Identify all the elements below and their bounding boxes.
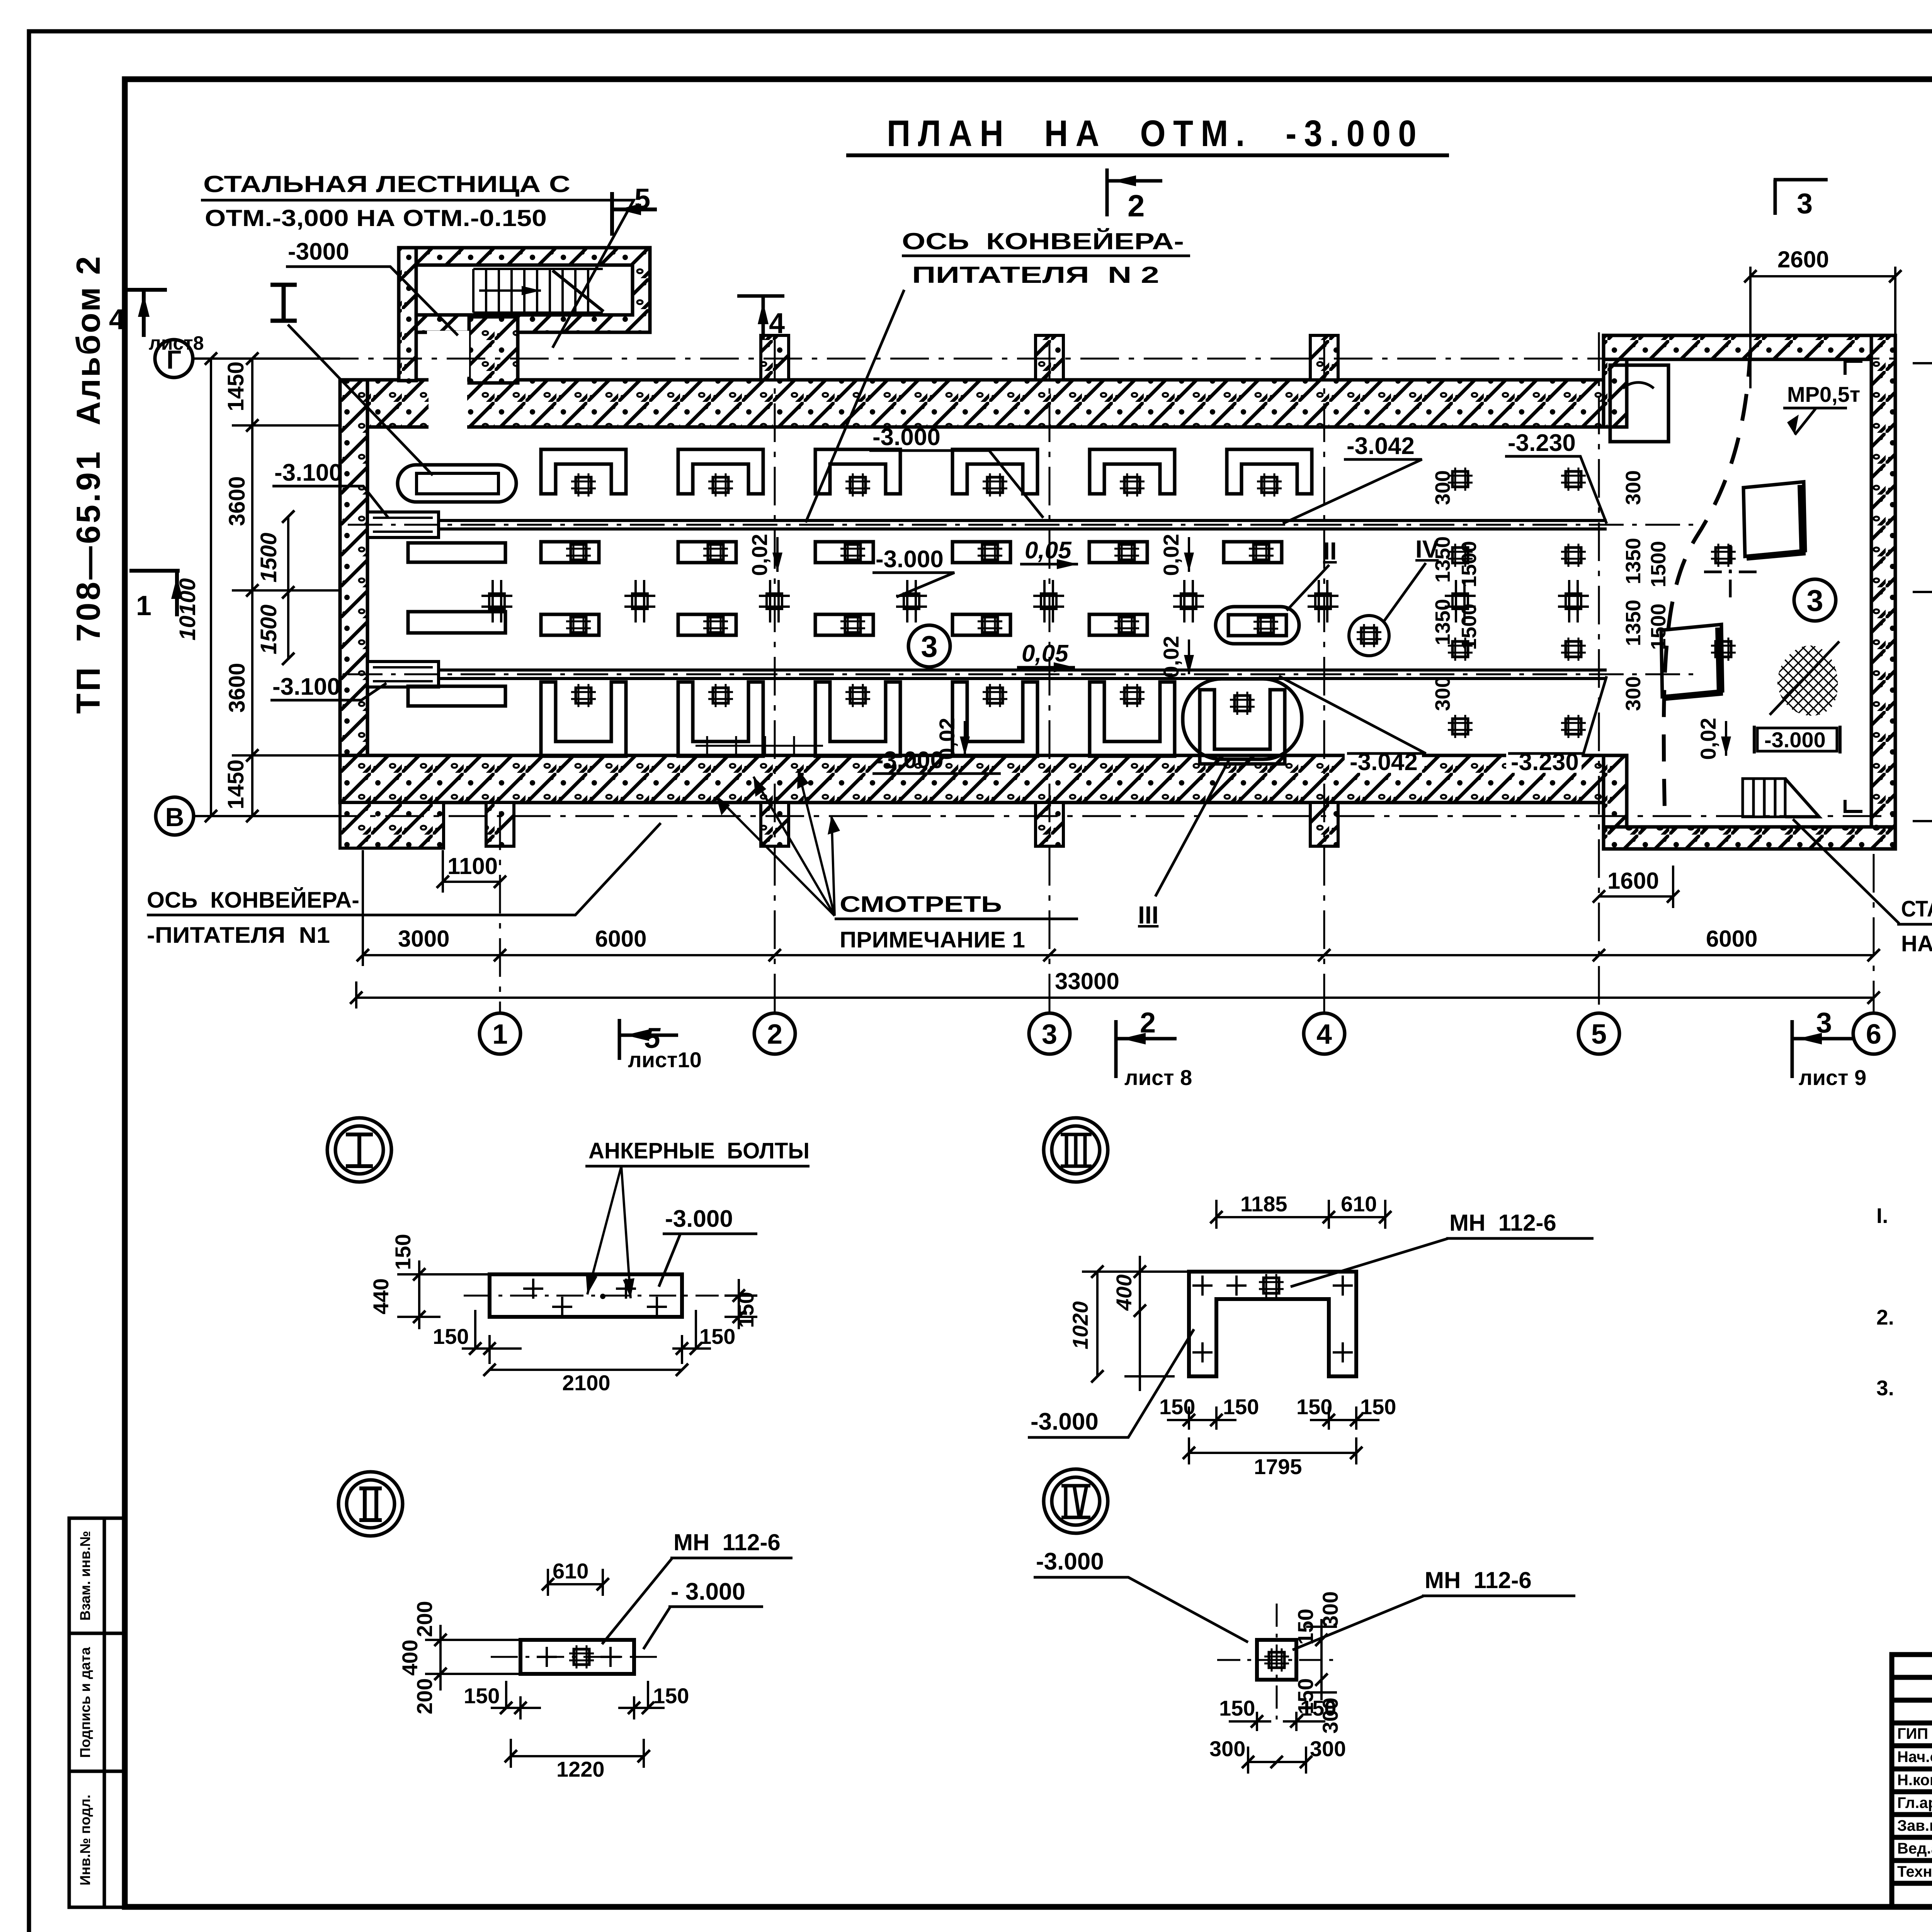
section mark 2 below title bbox=[1107, 168, 1162, 216]
detail IV badge bbox=[1044, 1469, 1108, 1533]
svg-text:3: 3 bbox=[921, 629, 937, 663]
svg-text:ГИП: ГИП bbox=[1897, 1725, 1928, 1742]
row 2 pads bbox=[541, 541, 599, 564]
svg-text:лист 9: лист 9 bbox=[1799, 1065, 1866, 1090]
left sidebar stamp table bbox=[69, 1518, 126, 1907]
bottom dimension lines bbox=[356, 850, 1874, 1009]
stair enclosure on top bbox=[399, 248, 650, 383]
svg-text:Взам. инв.№: Взам. инв.№ bbox=[77, 1531, 93, 1621]
svg-text:-3.000: -3.000 bbox=[1036, 1548, 1104, 1575]
svg-text:1795: 1795 bbox=[1254, 1454, 1302, 1479]
svg-text:-3.000: -3.000 bbox=[876, 747, 944, 774]
crosshatch blob bbox=[1777, 646, 1838, 716]
svg-text:1600: 1600 bbox=[1607, 868, 1659, 894]
svg-text:150: 150 bbox=[464, 1684, 500, 1708]
svg-text:3: 3 bbox=[1806, 583, 1823, 617]
conveyor 2 centreline bbox=[348, 524, 1700, 526]
svg-text:300: 300 bbox=[1209, 1736, 1245, 1761]
bottom wall band bbox=[340, 755, 1607, 803]
svg-text:300: 300 bbox=[1431, 470, 1454, 505]
svg-text:1450: 1450 bbox=[223, 759, 248, 809]
detail III U block bbox=[1189, 1272, 1356, 1376]
svg-text:МР0,5т: МР0,5т bbox=[1787, 382, 1860, 406]
bottom pilasters bbox=[486, 803, 514, 846]
svg-text:ОСЬ КОНВЕЙЕРА-: ОСЬ КОНВЕЙЕРА- bbox=[902, 228, 1184, 254]
svg-text:АНКЕРНЫЕ БОЛТЫ: АНКЕРНЫЕ БОЛТЫ bbox=[588, 1138, 810, 1163]
bottom row of U foundations bbox=[541, 682, 626, 756]
svg-text:СТАЛЬНАЯ ЛЕСТНИЦА: СТАЛЬНАЯ ЛЕСТНИЦА bbox=[1901, 896, 1932, 922]
svg-text:-3.100: -3.100 bbox=[272, 673, 340, 700]
right chamber of left plan bbox=[1604, 335, 1895, 359]
3 circle inside hall bbox=[908, 625, 950, 667]
svg-text:МН 112-6: МН 112-6 bbox=[673, 1529, 781, 1555]
svg-text:1350: 1350 bbox=[1431, 536, 1454, 583]
svg-text:1185: 1185 bbox=[1240, 1192, 1287, 1216]
5050 dim right of LEFT plan chamber bbox=[1913, 363, 1932, 821]
svg-text:-3.000: -3.000 bbox=[872, 424, 940, 451]
svg-text:-3.230: -3.230 bbox=[1508, 430, 1576, 456]
corner tick marks in chamber bbox=[1845, 361, 1862, 811]
svg-text:2.: 2. bbox=[1876, 1305, 1894, 1329]
svg-text:200: 200 bbox=[412, 1678, 437, 1714]
svg-text:НА ОТМ. - 0, 150: НА ОТМ. - 0, 150 bbox=[1901, 931, 1932, 956]
stair symbol in enclosure bbox=[473, 269, 604, 313]
detail III dims bbox=[1082, 1200, 1385, 1464]
svg-text:-3.000: -3.000 bbox=[665, 1206, 733, 1232]
svg-text:-3.042: -3.042 bbox=[1347, 433, 1415, 459]
svg-text:лист 8: лист 8 bbox=[1124, 1065, 1192, 1090]
svg-text:150: 150 bbox=[1296, 1395, 1332, 1419]
oval around bottom U (detail III ref) bbox=[1183, 679, 1302, 759]
section mark 1 left edge bbox=[129, 571, 180, 616]
svg-text:3600: 3600 bbox=[224, 476, 250, 526]
detail IV dims bbox=[1229, 1619, 1337, 1774]
svg-text:Подпись и дата: Подпись и дата bbox=[77, 1647, 93, 1758]
axis B bbox=[195, 815, 1897, 817]
svg-text:300: 300 bbox=[1310, 1736, 1346, 1761]
crane dashed path bbox=[1664, 350, 1750, 808]
svg-text:3: 3 bbox=[1797, 187, 1813, 219]
section mark 5 top bbox=[612, 192, 657, 236]
svg-text:1500: 1500 bbox=[1647, 604, 1670, 650]
detail I dims bbox=[397, 1260, 757, 1370]
svg-text:1500: 1500 bbox=[1458, 541, 1481, 587]
svg-text:1350: 1350 bbox=[1622, 538, 1645, 584]
svg-text:150: 150 bbox=[653, 1684, 689, 1708]
svg-text:5: 5 bbox=[1591, 1019, 1607, 1050]
svg-text:-ПИТАТЕЛЯ N1: -ПИТАТЕЛЯ N1 bbox=[147, 923, 330, 948]
svg-text:-3.000: -3.000 bbox=[1764, 728, 1826, 752]
bottom-left corner block bbox=[340, 803, 444, 848]
svg-text:0,02: 0,02 bbox=[1696, 718, 1720, 760]
svg-text:6000: 6000 bbox=[1706, 926, 1757, 952]
svg-text:2: 2 bbox=[1140, 1007, 1156, 1039]
svg-text:III: III bbox=[1138, 901, 1158, 929]
far-left long pads bbox=[408, 543, 505, 562]
svg-text:Нач.отд.: Нач.отд. bbox=[1897, 1748, 1932, 1765]
svg-text:150: 150 bbox=[734, 1292, 758, 1328]
svg-text:150: 150 bbox=[1300, 1696, 1336, 1720]
svg-text:150: 150 bbox=[391, 1234, 415, 1270]
svg-text:СМОТРЕТЬ: СМОТРЕТЬ bbox=[840, 892, 1002, 917]
left vertical dim lines bbox=[193, 359, 340, 816]
detail III badge bbox=[1044, 1118, 1108, 1182]
svg-text:ОТМ.-3,000 НА ОТМ.-0.150: ОТМ.-3,000 НА ОТМ.-0.150 bbox=[205, 205, 547, 231]
svg-text:Инв.№ подл.: Инв.№ подл. bbox=[77, 1794, 93, 1885]
svg-text:0,02: 0,02 bbox=[1159, 534, 1183, 576]
centre cross mark bbox=[1704, 545, 1757, 599]
boxed -3.000 bbox=[1754, 726, 1840, 753]
svg-text:1500: 1500 bbox=[1647, 541, 1670, 587]
svg-text:150: 150 bbox=[1293, 1609, 1318, 1645]
row 3 pads bbox=[541, 613, 599, 636]
svg-text:СТАЛЬНАЯ ЛЕСТНИЦА С: СТАЛЬНАЯ ЛЕСТНИЦА С bbox=[203, 171, 570, 197]
svg-text:1350: 1350 bbox=[1431, 599, 1454, 645]
svg-text:В: В bbox=[165, 803, 184, 832]
svg-text:Гл.арх.: Гл.арх. bbox=[1897, 1794, 1932, 1811]
svg-text:0,02: 0,02 bbox=[1159, 636, 1183, 678]
svg-text:3: 3 bbox=[1042, 1019, 1057, 1050]
svg-text:-3.000: -3.000 bbox=[876, 546, 944, 573]
svg-text:150: 150 bbox=[699, 1324, 735, 1349]
svg-text:1: 1 bbox=[492, 1019, 508, 1050]
svg-text:1500: 1500 bbox=[1458, 604, 1481, 650]
svg-text:5: 5 bbox=[634, 183, 650, 215]
columns along centre axis bbox=[481, 580, 512, 622]
top wall band bbox=[340, 380, 1607, 427]
svg-text:Альбом 2: Альбом 2 bbox=[70, 255, 107, 425]
conveyor feeder 1 (lower) rails bbox=[367, 670, 1607, 679]
svg-text:1220: 1220 bbox=[556, 1757, 605, 1781]
svg-text:ОСЬ КОНВЕЙЕРА-: ОСЬ КОНВЕЙЕРА- bbox=[147, 888, 359, 913]
svg-text:МН 112-6: МН 112-6 bbox=[1449, 1210, 1556, 1236]
dim 1100 bbox=[443, 850, 500, 893]
svg-text:Вед.арх.: Вед.арх. bbox=[1897, 1840, 1932, 1857]
svg-text:ПРИМЕЧАНИЕ 1: ПРИМЕЧАНИЕ 1 bbox=[840, 927, 1025, 952]
hall elevation labels bbox=[1345, 750, 1422, 773]
I beam mark top left bbox=[270, 285, 297, 321]
svg-text:I.: I. bbox=[1876, 1204, 1888, 1228]
svg-text:1350: 1350 bbox=[1622, 600, 1645, 646]
svg-text:Н.контр.: Н.контр. bbox=[1897, 1772, 1932, 1789]
svg-text:150: 150 bbox=[1219, 1696, 1255, 1720]
svg-text:3600: 3600 bbox=[224, 663, 250, 713]
svg-text:1: 1 bbox=[136, 590, 151, 621]
svg-text:33000: 33000 bbox=[1055, 968, 1119, 994]
square pad bbox=[1257, 1640, 1296, 1680]
rotated 0.02 labels with down arrows bbox=[747, 534, 1720, 760]
svg-text:610: 610 bbox=[553, 1559, 588, 1583]
top row of U foundations bbox=[541, 449, 626, 497]
svg-text:- 3.000: - 3.000 bbox=[671, 1578, 745, 1605]
top pilasters bbox=[761, 335, 789, 380]
svg-text:1100: 1100 bbox=[447, 853, 498, 879]
chamber stairs bbox=[1743, 779, 1819, 817]
svg-text:3: 3 bbox=[1816, 1007, 1832, 1039]
svg-text:300: 300 bbox=[1318, 1591, 1342, 1627]
svg-text:610: 610 bbox=[1341, 1192, 1377, 1216]
rotated dims right bay bbox=[1431, 470, 1670, 711]
stair opening white gap in top wall bbox=[429, 377, 467, 429]
detail II dims bbox=[425, 1569, 665, 1768]
left sub table rows bbox=[1892, 1677, 1932, 1883]
svg-text:1450: 1450 bbox=[223, 361, 248, 411]
svg-text:МН 112-6: МН 112-6 bbox=[1425, 1567, 1532, 1593]
svg-text:-3.000: -3.000 bbox=[1031, 1408, 1099, 1435]
svg-text:150: 150 bbox=[433, 1324, 469, 1349]
svg-text:лист8: лист8 bbox=[149, 332, 204, 354]
svg-text:0,05: 0,05 bbox=[1022, 640, 1069, 667]
conveyor feeder 2 (upper) rails bbox=[367, 520, 1607, 529]
bottom section marks bbox=[619, 1019, 678, 1060]
svg-text:300: 300 bbox=[1431, 676, 1454, 711]
svg-text:150: 150 bbox=[1360, 1395, 1396, 1419]
detail II bar bbox=[520, 1640, 634, 1674]
svg-text:1500: 1500 bbox=[256, 532, 281, 582]
svg-text:0,02: 0,02 bbox=[935, 718, 959, 760]
svg-text:ТП 708—65.91: ТП 708—65.91 bbox=[70, 449, 107, 714]
detail I badge bbox=[327, 1118, 391, 1182]
tilted chute boxes bbox=[1743, 482, 1805, 556]
detail II badge bbox=[338, 1472, 403, 1536]
svg-text:ПЛАН НА ОТМ. -3.000: ПЛАН НА ОТМ. -3.000 bbox=[887, 113, 1424, 154]
svg-text:150: 150 bbox=[1223, 1395, 1259, 1419]
svg-text:4: 4 bbox=[769, 307, 785, 339]
svg-text:2600: 2600 bbox=[1777, 247, 1829, 272]
door leaf bbox=[1610, 365, 1668, 442]
svg-text:4: 4 bbox=[1316, 1019, 1332, 1050]
svg-text:Зав.гр.: Зав.гр. bbox=[1897, 1817, 1932, 1834]
anchors in right bay of hall bbox=[1448, 468, 1473, 491]
conveyor 1 centreline bbox=[348, 673, 1700, 675]
oval around top-left pad bbox=[398, 465, 516, 502]
svg-text:400: 400 bbox=[1112, 1274, 1136, 1311]
small dim ticks under bottom U row near axis 2 bbox=[696, 736, 823, 755]
svg-text:2: 2 bbox=[1128, 189, 1145, 223]
vertical grid axes bbox=[500, 332, 1874, 1012]
circle around anchor (detail IV ref) bbox=[1349, 616, 1389, 656]
3 circle bbox=[1794, 579, 1836, 621]
svg-text:-3.100: -3.100 bbox=[274, 459, 342, 486]
svg-text:10100: 10100 bbox=[175, 578, 200, 640]
svg-text:200: 200 bbox=[412, 1601, 437, 1637]
grid circles bbox=[480, 1013, 1894, 1054]
detail I bar bbox=[490, 1274, 682, 1317]
svg-text:6000: 6000 bbox=[595, 926, 646, 952]
svg-text:6: 6 bbox=[1866, 1019, 1881, 1050]
svg-text:лист10: лист10 bbox=[628, 1048, 702, 1072]
svg-text:0,02: 0,02 bbox=[747, 534, 772, 576]
svg-text:ПИТАТЕЛЯ N 2: ПИТАТЕЛЯ N 2 bbox=[912, 262, 1159, 288]
svg-text:3000: 3000 bbox=[398, 926, 449, 952]
svg-text:1020: 1020 bbox=[1068, 1301, 1092, 1350]
svg-text:Техн.1 кат.: Техн.1 кат. bbox=[1897, 1863, 1932, 1880]
svg-text:4: 4 bbox=[109, 303, 125, 335]
section mark 4 left bbox=[127, 290, 167, 337]
svg-text:2: 2 bbox=[767, 1019, 782, 1050]
svg-text:3.: 3. bbox=[1876, 1376, 1894, 1400]
left wall bbox=[340, 380, 367, 803]
axis Г bbox=[193, 358, 1897, 360]
svg-text:400: 400 bbox=[398, 1639, 422, 1675]
svg-text:-3000: -3000 bbox=[288, 238, 349, 265]
svg-text:0,05: 0,05 bbox=[1025, 537, 1072, 564]
svg-text:1500: 1500 bbox=[256, 604, 281, 654]
dim 1600 at chamber bbox=[1599, 866, 1673, 908]
svg-text:2100: 2100 bbox=[562, 1371, 611, 1395]
section mark 3 top right of hall bbox=[1774, 180, 1828, 215]
oval around row3 pad (detail II ref) bbox=[1216, 607, 1299, 644]
svg-text:150: 150 bbox=[1159, 1395, 1195, 1419]
svg-text:440: 440 bbox=[369, 1278, 393, 1314]
svg-text:300: 300 bbox=[1622, 470, 1645, 505]
section mark 4 right of enclosure bbox=[737, 296, 784, 340]
svg-text:300: 300 bbox=[1622, 676, 1645, 711]
dim 2600 above left plan chamber bbox=[1750, 267, 1895, 388]
